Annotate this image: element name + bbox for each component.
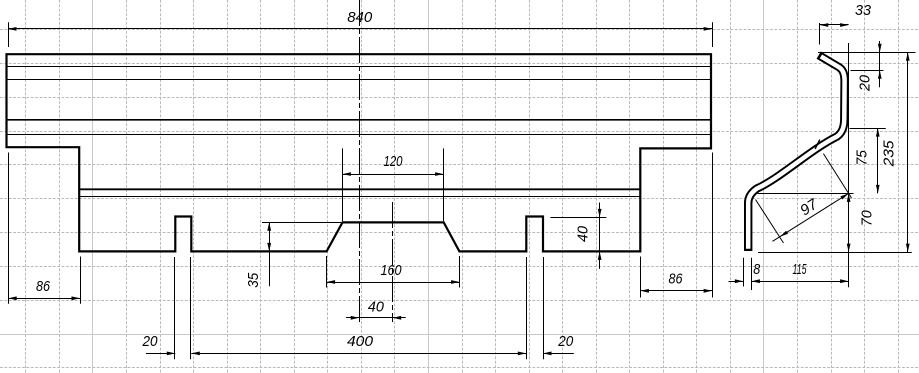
svg-text:33: 33 (855, 2, 872, 19)
dim 86 left extension lines (8, 153, 10, 304)
dim 840 line (8, 28, 712, 30)
svg-text:40: 40 (575, 225, 592, 242)
svg-text:40: 40 (368, 299, 385, 316)
dim 97 line (773, 193, 849, 241)
svg-text:86: 86 (669, 271, 684, 288)
svg-text:235: 235 (881, 140, 898, 168)
centerline (main, x=359) (359, 0, 361, 322)
dim 840 extension lines (8, 22, 10, 47)
svg-text:75: 75 (853, 149, 870, 165)
dim 160 extension lines (326, 256, 328, 288)
lower band groove line 2 (79, 196, 640, 198)
svg-text:70: 70 (858, 210, 875, 227)
dim 120 line (342, 174, 443, 176)
dim 400 line (191, 353, 526, 355)
panel face line 4 (7, 134, 712, 136)
lower band groove line 1 (79, 188, 640, 190)
section top extension line (y=52) (818, 52, 916, 54)
bend extension line (y=128) (850, 128, 886, 130)
dim 8 line (729, 281, 744, 283)
dim 8 left extension line (743, 258, 745, 287)
svg-text:86: 86 (36, 278, 51, 295)
svg-text:20: 20 (557, 333, 573, 350)
section profile sheet (Z-bent) (748, 55, 844, 251)
dim 120 extension lines (342, 148, 344, 221)
bottom extension line (y=252.1) (758, 252, 912, 254)
panel face line 2 (7, 79, 712, 81)
panel face line 3 (7, 119, 712, 121)
dim 35 line (269, 222, 271, 286)
dim 86 left line (8, 298, 80, 300)
centerline (trapezoid, x=393) (392, 202, 394, 322)
dim 20 right line (543, 353, 574, 355)
svg-text:20: 20 (857, 74, 874, 92)
dim 97 extension line lower (756, 200, 784, 244)
dim 97 extension line upper (823, 154, 851, 198)
web tick mark (815, 140, 820, 149)
svg-text:120: 120 (384, 153, 403, 170)
dim 40 center line (346, 317, 406, 319)
svg-text:20: 20 (142, 333, 158, 350)
panel outline (main view) (7, 54, 712, 251)
left rib extension lines (174, 257, 176, 359)
dim 40 rib extension line (550, 217, 606, 219)
web-bottom extension line (y=193.4) (758, 193, 854, 195)
dim 86 right extension lines (640, 257, 642, 298)
dim 115 line (751, 281, 848, 283)
svg-text:160: 160 (381, 262, 403, 279)
dim 70 arrows (847, 193, 851, 202)
dim 235 line (907, 52, 909, 252)
svg-text:115: 115 (793, 261, 807, 278)
dim 75 line (877, 128, 879, 193)
dim 33 line (820, 24, 849, 26)
dim 40 rib line (599, 203, 601, 269)
dim 20 section line (879, 41, 881, 87)
dim 20 left line (146, 353, 175, 355)
right rib extension lines (526, 257, 528, 359)
section bend extension line (y=70) (851, 70, 884, 72)
dim 33 left extension line (819, 23, 821, 45)
svg-text:35: 35 (245, 272, 262, 288)
long right extension / dim 70 line (x=848.6) (848, 43, 850, 287)
dim 86 right line (640, 290, 712, 292)
dim 160 line (327, 282, 460, 284)
dim 8/115 shared extension line (751, 258, 753, 290)
dim 35 extension line (262, 222, 341, 224)
svg-text:8: 8 (753, 261, 761, 278)
panel face line 1 (7, 66, 712, 68)
svg-text:840: 840 (347, 9, 373, 26)
svg-text:400: 400 (347, 333, 374, 350)
